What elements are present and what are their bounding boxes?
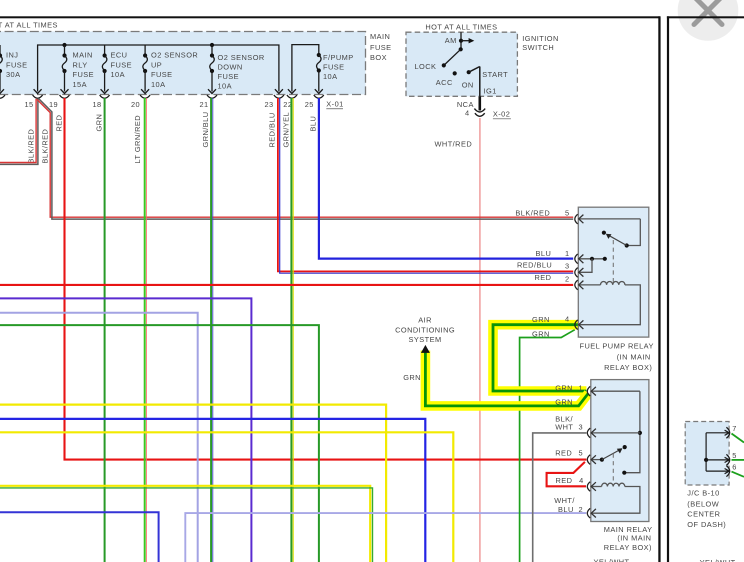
main relay pin 2 connector — [579, 505, 596, 518]
svg-text:RLY: RLY — [73, 60, 88, 69]
svg-text:23: 23 — [265, 100, 274, 109]
svg-text:LT GRN/RED: LT GRN/RED — [133, 115, 142, 164]
wire WHT/BLU from bottom to main relay pin 2 — [185, 513, 586, 562]
svg-text:10A: 10A — [323, 72, 338, 81]
svg-text:1: 1 — [565, 249, 570, 258]
wire GRN from left edge down to bottom — [0, 325, 319, 562]
wire GRN/YEL from pin 22 to bottom — [291, 98, 293, 562]
panel 2 top border — [667, 16, 744, 18]
svg-text:(IN MAIN: (IN MAIN — [617, 534, 651, 543]
svg-text:GRN: GRN — [555, 398, 573, 407]
wire GRN thin from bottom to fuel pump relay pin 4 — [520, 330, 575, 562]
fuel pump relay pin 5 connector — [565, 209, 640, 224]
svg-text:RED: RED — [55, 115, 64, 132]
junction node on bus at o2 down fuse — [210, 43, 214, 47]
svg-text:INJ: INJ — [6, 50, 18, 59]
svg-text:7: 7 — [732, 424, 737, 433]
main relay coil L2 — [579, 476, 640, 513]
fuel pump relay pin 1 connector — [565, 249, 607, 264]
wire BLU from pin 25 to fuel pump relay pin 1 — [319, 98, 573, 259]
svg-text:18: 18 — [93, 100, 102, 109]
svg-text:15: 15 — [25, 100, 34, 109]
svg-text:ACC: ACC — [436, 78, 453, 87]
svg-text:HOT AT ALL TIMES: HOT AT ALL TIMES — [425, 22, 497, 31]
svg-text:IGNITION: IGNITION — [522, 34, 558, 43]
bus wire 2 inside fuse box — [292, 45, 319, 92]
svg-text:5: 5 — [565, 209, 570, 218]
svg-text:GRN: GRN — [403, 373, 421, 382]
wire BLU/WHT from left edge down to bottom — [0, 512, 159, 562]
main relay pin 5 connector — [579, 448, 596, 464]
J/C B-10 internal bus — [704, 433, 708, 471]
thick lead from ignition to connector X-02 — [478, 96, 481, 110]
junction node on bus at main rly fuse — [62, 43, 66, 47]
svg-text:RED: RED — [556, 476, 573, 485]
svg-text:YEL/WHT: YEL/WHT — [700, 558, 736, 562]
svg-text:10A: 10A — [111, 70, 126, 79]
wire GRN highlighted A/C branch to main relay pin 1 — [425, 351, 588, 406]
wire GRN from pin 18 to bottom — [104, 98, 106, 562]
panel 1 top border — [0, 16, 660, 18]
svg-text:BLK/RED: BLK/RED — [41, 129, 50, 164]
ignition switch SW1 internals — [415, 32, 509, 96]
fuse O2 SENSOR UP 10A — [141, 45, 198, 94]
svg-text:O2 SENSOR: O2 SENSOR — [151, 50, 198, 59]
pin-23 arrow out of bus — [275, 89, 283, 93]
wire LT GRN/RED from pin 20 to bottom — [145, 98, 147, 562]
connector sockets under fuse box — [0, 95, 324, 98]
wire BLK/RED from pin 15 to left edge — [0, 99, 38, 165]
svg-text:CENTER: CENTER — [687, 510, 720, 519]
svg-text:OF DASH): OF DASH) — [687, 520, 726, 529]
svg-text:GRN: GRN — [532, 315, 550, 324]
main fuse box body — [0, 32, 366, 95]
svg-text:RED: RED — [535, 273, 552, 282]
svg-text:BLU: BLU — [558, 505, 574, 514]
svg-text:(BELOW: (BELOW — [687, 500, 719, 509]
svg-text:SWITCH: SWITCH — [522, 43, 554, 52]
wire WHT/RED vertical — [479, 118, 481, 562]
svg-text:FUSE: FUSE — [6, 60, 28, 69]
connector X-02 symbol — [474, 109, 485, 117]
svg-text:LOCK: LOCK — [415, 62, 437, 71]
fuel pump relay body — [578, 207, 649, 337]
wire YEL/GRN pair from left edge down to bottom — [0, 486, 373, 562]
svg-text:5: 5 — [579, 448, 584, 457]
svg-text:2: 2 — [579, 505, 584, 514]
bus wire 1 inside fuse box — [38, 45, 279, 92]
svg-text:DOWN: DOWN — [218, 63, 243, 72]
svg-text:F/PUMP: F/PUMP — [323, 53, 354, 62]
wire WHT/PPL from left edge down to bottom — [0, 313, 198, 562]
svg-text:X-02: X-02 — [493, 109, 510, 118]
svg-text:UP: UP — [151, 60, 162, 69]
wire BLU from left edge down to bottom — [0, 419, 425, 562]
arrow to air conditioning system — [421, 345, 430, 353]
svg-text:21: 21 — [200, 100, 209, 109]
pin-15 arrow out of bus — [34, 89, 42, 93]
svg-text:BLK/RED: BLK/RED — [27, 129, 36, 164]
wire PPL from left edge down to bottom — [0, 298, 251, 562]
wire YEL from left edge down to bottom (1) — [0, 405, 386, 562]
J/C B-10 pin 6 — [706, 463, 737, 477]
svg-text:4: 4 — [465, 108, 470, 117]
svg-text:GRN: GRN — [95, 114, 104, 132]
svg-text:(IN MAIN: (IN MAIN — [617, 352, 651, 361]
ignition switch box — [406, 32, 517, 96]
svg-text:FUEL PUMP RELAY: FUEL PUMP RELAY — [580, 341, 654, 350]
panel 2 left border — [667, 16, 669, 562]
svg-text:X-01: X-01 — [326, 100, 343, 109]
fuse INJ 30A (clipped at left edge) — [0, 45, 28, 94]
svg-text:FUSE: FUSE — [218, 72, 240, 81]
wire BLK/WHT from bottom to main relay pin 3 — [533, 433, 587, 562]
svg-text:AM: AM — [445, 36, 457, 45]
svg-text:SYSTEM: SYSTEM — [409, 335, 442, 344]
svg-text:WHT/RED: WHT/RED — [435, 140, 473, 149]
svg-text:MAIN: MAIN — [73, 50, 93, 59]
junction connector J/C B-10 body — [685, 422, 729, 486]
svg-text:1: 1 — [579, 383, 584, 392]
svg-text:6: 6 — [732, 463, 737, 472]
wire GRN at J/C pin 5 — [732, 459, 744, 461]
svg-text:GRN: GRN — [532, 329, 550, 338]
svg-text:FUSE: FUSE — [370, 43, 392, 52]
fuse ECU 10A — [101, 45, 132, 94]
svg-text:25: 25 — [305, 100, 314, 109]
svg-text:19: 19 — [49, 100, 58, 109]
svg-text:MAIN: MAIN — [370, 32, 390, 41]
fuel pump relay pin 4 connector — [565, 315, 583, 330]
svg-text:CONDITIONING: CONDITIONING — [395, 325, 455, 334]
wire GRN/BLU from pin 21 to bottom — [211, 98, 213, 562]
fuse MAIN RLY 15A — [61, 45, 95, 94]
main relay pin 1 connector — [579, 383, 640, 396]
svg-text:4: 4 — [579, 476, 584, 485]
svg-text:BLU: BLU — [536, 249, 552, 258]
svg-text:4: 4 — [565, 315, 570, 324]
svg-text:ECU: ECU — [111, 50, 128, 59]
svg-text:3: 3 — [565, 261, 570, 270]
svg-text:WHT/: WHT/ — [554, 496, 575, 505]
wire GRN at J/C pin 7 — [732, 434, 744, 443]
svg-text:BLK/RED: BLK/RED — [515, 209, 550, 218]
svg-text:RELAY BOX): RELAY BOX) — [604, 543, 652, 552]
svg-text:IG1: IG1 — [484, 87, 497, 96]
fuse F/PUMP 10A — [315, 50, 354, 94]
svg-text:AIR: AIR — [418, 315, 432, 324]
svg-text:30A: 30A — [6, 70, 21, 79]
fuse O2 SENSOR DOWN 10A — [208, 45, 265, 94]
svg-text:RED/BLU: RED/BLU — [268, 112, 277, 147]
svg-text:20: 20 — [131, 100, 140, 109]
svg-text:J/C B-10: J/C B-10 — [687, 489, 719, 498]
fuel pump relay switch S1 — [602, 219, 640, 283]
svg-text:2: 2 — [565, 274, 570, 283]
svg-text:10A: 10A — [218, 81, 233, 90]
svg-text:HOT AT ALL TIMES: HOT AT ALL TIMES — [0, 21, 58, 30]
svg-text:10A: 10A — [151, 80, 166, 89]
panel 1 right border — [658, 16, 660, 562]
svg-text:START: START — [482, 70, 508, 79]
svg-text:GRN/YEL: GRN/YEL — [282, 112, 291, 148]
J/C B-10 pin 5 — [706, 451, 737, 465]
svg-text:RELAY BOX): RELAY BOX) — [604, 363, 652, 372]
svg-text:WHT: WHT — [555, 423, 573, 432]
svg-text:ON: ON — [462, 81, 474, 90]
svg-text:GRN: GRN — [555, 383, 573, 392]
close button — [678, 0, 739, 41]
svg-text:FUSE: FUSE — [73, 70, 95, 79]
wire RED jumper main relay pin 5 to pin 4 — [547, 462, 586, 486]
main relay switch S2 — [591, 445, 626, 483]
wire RED/BLU from pin 23 to fuel pump relay pin 3 — [278, 98, 573, 273]
svg-text:BOX: BOX — [370, 53, 387, 62]
svg-text:RED/BLU: RED/BLU — [517, 260, 552, 269]
pin-22 arrow out of bus2 — [288, 89, 296, 93]
svg-text:15A: 15A — [73, 80, 88, 89]
wire GRN at J/C pin 6 — [732, 472, 744, 477]
svg-text:FUSE: FUSE — [151, 70, 173, 79]
wire BLK/RED from pin 15 to fuel pump relay pin 5 — [37, 99, 573, 219]
svg-text:BLU: BLU — [309, 116, 318, 132]
wire YEL from left edge down to bottom (2) — [0, 432, 453, 562]
svg-text:FUSE: FUSE — [323, 63, 345, 72]
svg-text:5: 5 — [732, 451, 737, 460]
fuel pump relay pin 3 connector — [565, 259, 592, 277]
svg-text:3: 3 — [579, 423, 584, 432]
svg-text:FUSE: FUSE — [111, 60, 133, 69]
main relay pin1-pin3 link — [622, 391, 642, 475]
svg-text:O2 SENSOR: O2 SENSOR — [218, 53, 265, 62]
svg-text:YEL/WHT: YEL/WHT — [594, 558, 630, 562]
svg-text:RED: RED — [555, 448, 572, 457]
wire RED from pin 19 to main relay pin 5 — [65, 98, 587, 460]
wire RED from left edge to fuel pump relay pin 2 — [0, 284, 573, 286]
fuel pump relay coil L1 — [565, 274, 640, 324]
J/C B-10 pin 7 — [706, 424, 737, 438]
wire GRN highlighted fuel pump relay pin 4 to main relay pin 1 — [493, 325, 586, 391]
main relay body — [591, 380, 649, 522]
svg-text:GRN/BLU: GRN/BLU — [201, 111, 210, 147]
main relay pin 3 connector — [579, 423, 640, 438]
